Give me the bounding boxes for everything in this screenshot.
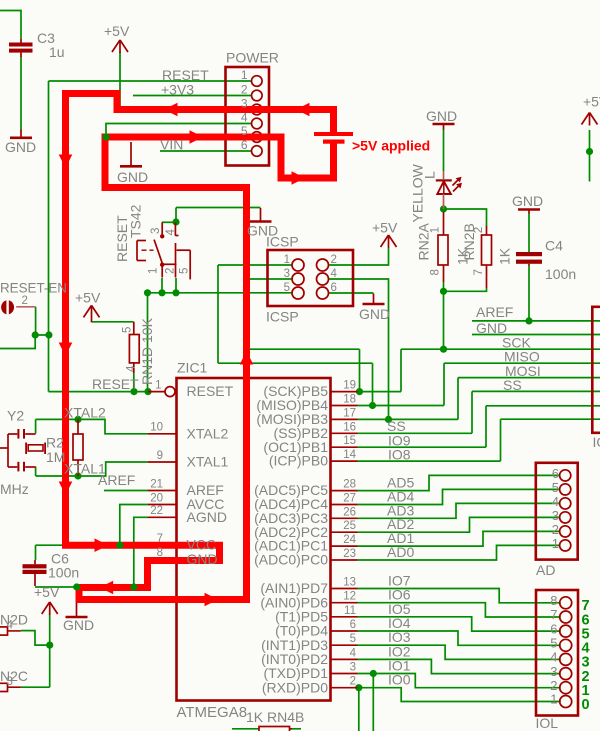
label RN1D value [122, 317, 155, 385]
svg-text:3: 3 [284, 268, 290, 280]
label >5V applied [352, 138, 430, 154]
label RN2B value [461, 223, 513, 275]
svg-text:6: 6 [350, 619, 356, 631]
wire IO7 net [358, 589, 561, 603]
ground LED inverted [433, 124, 455, 130]
svg-text:1: 1 [552, 536, 559, 551]
wire SCK middle row [247, 348, 360, 350]
label net IO9 [388, 433, 411, 449]
junction dot AVCC on highlight [116, 542, 123, 549]
label net SS [503, 377, 522, 393]
ground bottom-left [66, 590, 88, 617]
svg-text:0: 0 [582, 697, 590, 713]
wire RESET net left vertical [48, 81, 50, 392]
wire N2C link [21, 686, 50, 688]
label net VIN [160, 137, 183, 153]
svg-text:1K RN4B: 1K RN4B [246, 709, 304, 725]
svg-text:24: 24 [343, 534, 356, 546]
label net IO8 [388, 447, 411, 463]
wire RN2B bottom [444, 288, 487, 291]
label AD title [536, 562, 555, 578]
svg-text:+5V: +5V [34, 584, 60, 600]
svg-text:100n: 100n [48, 565, 79, 581]
wire switch to ICSP GND symbol [176, 207, 261, 209]
svg-text:+5V: +5V [372, 220, 398, 236]
svg-text:1M: 1M [46, 449, 65, 465]
svg-text:6: 6 [331, 282, 337, 294]
label net GND line [476, 320, 507, 336]
wire crystal rail top [35, 419, 37, 433]
wire IO4 net [358, 631, 561, 645]
svg-text:AREF: AREF [476, 304, 513, 320]
svg-text:9: 9 [157, 450, 163, 462]
wire IO2 net [358, 659, 561, 673]
label LED name [410, 163, 438, 222]
label ZIC1 [177, 360, 208, 376]
svg-text:RESET: RESET [92, 376, 139, 392]
svg-text:+3V3: +3V3 [161, 82, 194, 98]
svg-text:ICSP: ICSP [266, 309, 299, 325]
svg-text:17: 17 [343, 407, 356, 419]
svg-text:2: 2 [473, 227, 485, 233]
wire RESET-EN stub left [0, 335, 35, 349]
wire pin15 row [358, 446, 487, 448]
svg-text:22: 22 [150, 505, 163, 517]
wire IO1 net [358, 674, 561, 688]
wire C4 bottom to AREF [528, 265, 530, 321]
wire IO8 long line [501, 418, 600, 420]
wire SCK vertical under highlight [246, 279, 248, 349]
wire RXD drop [358, 688, 360, 731]
label net RESET row [92, 376, 139, 392]
svg-text:AD: AD [536, 562, 555, 578]
svg-text:POWER: POWER [226, 50, 279, 66]
label AD pin numbers [552, 466, 559, 551]
flow arrows [59, 103, 310, 607]
wire ICSP pin3 SCK left [247, 278, 293, 280]
resistor RN1D 10K [129, 322, 139, 373]
svg-text:2: 2 [552, 522, 559, 537]
svg-text:8: 8 [550, 593, 557, 608]
label IOL green digits [582, 598, 590, 713]
ground ICSP-left [250, 208, 272, 222]
svg-text:Y2: Y2 [7, 408, 24, 424]
label net AREF left [98, 472, 135, 488]
label IOL title [536, 715, 559, 731]
svg-text:GND: GND [359, 306, 390, 322]
svg-text:10: 10 [150, 422, 163, 434]
label net AREF line [476, 304, 513, 320]
label C6 value [48, 551, 79, 581]
label GND LED [426, 108, 457, 124]
label MHz [0, 481, 29, 497]
wire ICSP pin4 MOSI [329, 279, 389, 419]
label GND near POWER [117, 169, 148, 185]
jumper RESET-EN [1, 300, 36, 314]
battery plates [314, 132, 353, 144]
label GND C3 [5, 139, 36, 155]
svg-text:2: 2 [241, 83, 248, 97]
label R2 value [46, 435, 65, 466]
svg-text:6: 6 [550, 621, 557, 636]
label GND bottom-left [63, 617, 94, 633]
resistor RN2C (cut) [0, 683, 21, 691]
svg-text:23: 23 [343, 548, 356, 560]
svg-text:4: 4 [126, 365, 138, 372]
resistor R2 1M [73, 419, 83, 476]
label IC left pin numbers [150, 380, 163, 560]
label +5V top [104, 23, 130, 39]
svg-text:3: 3 [241, 97, 248, 111]
svg-text:1: 1 [284, 254, 290, 266]
label net XTAL1 [64, 461, 106, 477]
svg-text:GND: GND [512, 193, 543, 209]
wire pin8 hidden drop [147, 559, 149, 587]
wire VIN to POWER pin6 [160, 150, 252, 152]
wire IO9 riser [485, 406, 487, 447]
wire RESET row to IC pin1 [49, 391, 149, 393]
label ATMEGA8 [177, 704, 248, 721]
wire XTAL2 row [36, 419, 148, 433]
svg-text:N2C: N2C [0, 668, 28, 684]
label RN4B value [246, 709, 304, 725]
label IC right pin numbers [343, 380, 356, 688]
wire IO9 long line [486, 405, 600, 407]
wire AGND drop [134, 517, 148, 587]
ic right pin stubs [331, 392, 358, 688]
svg-text:4: 4 [552, 494, 559, 509]
svg-text:14: 14 [343, 449, 356, 461]
svg-text:5: 5 [241, 124, 248, 138]
svg-text:MHz: MHz [0, 481, 29, 497]
label IOL pin numbers [550, 593, 557, 707]
label RN2C pin [0, 668, 28, 688]
wire switch pin4 drop [175, 208, 177, 224]
label net XTAL2 [64, 405, 106, 421]
svg-text:3: 3 [552, 508, 559, 523]
svg-text:>5V applied: >5V applied [352, 138, 430, 154]
wire LED node to RN2B [444, 209, 487, 226]
svg-text:8: 8 [157, 547, 163, 559]
svg-text:SS: SS [503, 377, 522, 393]
svg-text:XTAL1: XTAL1 [187, 454, 229, 470]
svg-text:5: 5 [122, 327, 134, 333]
svg-text:ATMEGA8: ATMEGA8 [177, 704, 248, 721]
svg-text:1u: 1u [49, 44, 65, 60]
svg-text:12: 12 [343, 591, 356, 603]
wire +5V N2 vertical [49, 614, 51, 688]
wire MOSI riser [457, 378, 459, 420]
wire ICSP pin6 to GND [329, 292, 374, 294]
svg-text:20: 20 [150, 492, 163, 504]
wire C4 top [528, 213, 530, 252]
wire +3V3 to POWER pin2 [133, 95, 252, 97]
wire RESET row switch to ICSP pin5 [148, 292, 293, 294]
svg-text:2: 2 [331, 254, 337, 266]
connector ICSP box [268, 250, 354, 306]
ic ZIC1 box [177, 378, 331, 701]
label +5V bottom-left [34, 584, 60, 600]
svg-text:2: 2 [22, 295, 28, 307]
svg-text:TS42: TS42 [128, 204, 144, 238]
connector IOH box (cut) [592, 307, 600, 433]
wire SS long line [472, 390, 600, 392]
svg-text:RESET: RESET [187, 383, 234, 399]
svg-text:7: 7 [473, 269, 485, 275]
wire pin18 row [358, 405, 445, 407]
label RN2D pin [0, 612, 28, 632]
wire XTAL1 row [36, 462, 148, 476]
label C4 value [545, 238, 576, 283]
wire IO6 net [358, 603, 561, 617]
wire MISO riser [443, 363, 445, 405]
svg-text:3: 3 [350, 662, 356, 674]
svg-text:4: 4 [331, 268, 338, 280]
label net MOSI [505, 363, 541, 379]
ic left pin stubs [148, 434, 177, 560]
supply +5V bottom-left [42, 602, 58, 615]
wire AREF long line [472, 320, 600, 322]
wire GND long line [472, 334, 600, 336]
svg-text:1: 1 [148, 268, 160, 274]
wire AD2 net [358, 517, 560, 532]
wire GND row bottom [35, 586, 148, 588]
wire RESET-EN link [36, 307, 49, 335]
wire switch to RESET row vertical [147, 293, 149, 392]
svg-text:6: 6 [241, 138, 248, 152]
svg-text:VIN: VIN [160, 137, 183, 153]
led L yellow [436, 171, 462, 209]
label +5V ICSP [372, 220, 398, 236]
label RESET-EN [0, 281, 67, 308]
connector ICSP pads [292, 259, 329, 299]
svg-text:4: 4 [350, 647, 357, 659]
supply +5V ICSP [381, 235, 397, 248]
label IC right pin names [254, 383, 328, 695]
svg-text:C4: C4 [545, 238, 563, 254]
wire AREF left [104, 490, 148, 492]
wire AD4 net [358, 489, 560, 504]
wire AD0 net [358, 545, 560, 560]
wire N2D link [21, 631, 50, 646]
svg-text:5: 5 [550, 636, 557, 651]
svg-text:18: 18 [343, 394, 356, 406]
wire pin17 row [358, 418, 459, 420]
svg-text:2: 2 [350, 676, 356, 688]
label switch pins [148, 228, 191, 274]
label net MISO [504, 349, 540, 365]
switch S1 TS42 [137, 222, 190, 279]
svg-text:XTAL2: XTAL2 [187, 425, 229, 441]
label IC left pin names [187, 383, 234, 567]
svg-text:3: 3 [7, 676, 13, 688]
connector AD pads [560, 470, 571, 551]
svg-text:RN1D 10K: RN1D 10K [139, 317, 155, 385]
wire IO3 net [358, 645, 561, 659]
svg-text:IOL: IOL [536, 715, 559, 731]
wire AVCC drop [120, 505, 148, 546]
svg-text:5: 5 [552, 480, 559, 495]
wire pin19 row [358, 391, 402, 393]
ground near POWER [120, 142, 142, 166]
wire MISO drop to pin18 [372, 363, 374, 405]
wire RN4B right stub [290, 728, 302, 730]
svg-text:19: 19 [343, 380, 356, 392]
svg-text:IO0: IO0 [388, 672, 411, 688]
crystal Y2 cluster [0, 429, 46, 471]
connector IOL box [536, 590, 578, 716]
wire RN4B left stub [232, 728, 259, 730]
svg-text:16: 16 [343, 421, 356, 433]
label switch S1 name [114, 204, 144, 262]
label net SCK [502, 335, 531, 351]
svg-text:GND: GND [63, 617, 94, 633]
label net +3V3 [161, 82, 194, 98]
svg-text:+5V: +5V [75, 290, 101, 306]
wire pin14 row [358, 460, 501, 462]
svg-text:100n: 100n [545, 266, 576, 282]
supply +5V RN1D [84, 305, 100, 322]
svg-text:IO8: IO8 [388, 447, 411, 463]
svg-text:L: L [422, 171, 438, 179]
label GND ICSP-left [247, 223, 278, 239]
svg-text:IO: IO [593, 434, 600, 450]
wire RN1D to RESET row [133, 373, 135, 392]
svg-text:XTAL2: XTAL2 [64, 405, 106, 421]
svg-text:GND: GND [187, 551, 218, 567]
svg-text:3: 3 [150, 228, 162, 234]
label ICSP title [266, 234, 299, 325]
svg-text:+5V: +5V [583, 94, 600, 110]
capacitor C4 [516, 252, 542, 266]
wire ICSP pin1 MISO left [218, 264, 292, 266]
wire pin16 row [358, 432, 473, 434]
junction dot POWER pin4 GND [102, 133, 109, 140]
label Y2 name [7, 408, 24, 424]
label +5V right [583, 94, 600, 110]
svg-text:4: 4 [165, 229, 177, 236]
svg-text:(ADC0)PC0: (ADC0)PC0 [254, 552, 328, 568]
wire AD1 net [358, 531, 560, 546]
wire RESET net to POWER pin1 [49, 80, 252, 82]
svg-text:+5V: +5V [104, 23, 130, 39]
svg-text:1: 1 [155, 380, 161, 392]
svg-text:ZIC1: ZIC1 [177, 360, 208, 376]
svg-text:28: 28 [343, 479, 356, 491]
label net RESET [162, 67, 209, 83]
wire SCK riser [400, 349, 402, 391]
wire IO0 net [358, 688, 561, 702]
svg-text:(ICP)PB0: (ICP)PB0 [269, 453, 328, 469]
wire VCC row left [36, 544, 67, 546]
resistor RN2A [438, 212, 448, 282]
wire SCK drop to pin19 [359, 349, 361, 391]
svg-text:5: 5 [284, 282, 290, 294]
wire +5V right drop [589, 130, 591, 182]
svg-text:7: 7 [550, 607, 557, 622]
svg-text:1: 1 [429, 227, 441, 233]
wire +5V to RN1D [92, 321, 134, 323]
svg-text:11: 11 [344, 605, 356, 617]
label GND ICSP pin6 [359, 306, 390, 322]
svg-text:1: 1 [241, 68, 248, 82]
svg-text:25: 25 [343, 520, 356, 532]
ground C4 inverted [518, 210, 540, 214]
svg-text:1K: 1K [497, 247, 513, 265]
svg-text:2: 2 [165, 268, 177, 274]
wire MISO middle row [218, 362, 373, 364]
wire MISO vertical [217, 265, 219, 363]
wire POWER pin4 net [106, 124, 252, 137]
svg-text:7: 7 [157, 533, 163, 545]
svg-text:RESET-EN: RESET-EN [0, 281, 67, 296]
wire SS riser [471, 391, 473, 433]
label RN2A value [416, 222, 471, 275]
label C3 value [37, 30, 65, 60]
svg-text:8: 8 [429, 269, 441, 275]
label POWER title [226, 50, 279, 66]
svg-text:5: 5 [350, 633, 356, 645]
wire ICSP pin2 to +5V [329, 248, 389, 265]
svg-text:26: 26 [343, 506, 356, 518]
svg-text:ICSP: ICSP [266, 234, 299, 250]
highlight current loop [66, 94, 334, 600]
svg-text:GND: GND [5, 139, 36, 155]
svg-text:N2D: N2D [0, 612, 28, 628]
wire +5V top to POWER pin3 [119, 52, 121, 108]
connector POWER pins [251, 76, 262, 157]
svg-text:13: 13 [343, 577, 356, 589]
svg-text:4: 4 [241, 111, 248, 125]
label net SS local [387, 418, 406, 434]
svg-text:GND: GND [117, 169, 148, 185]
wire MISO long line [444, 362, 600, 364]
svg-text:2: 2 [550, 678, 557, 693]
capacitor C3 [9, 39, 33, 57]
svg-text:27: 27 [343, 493, 356, 505]
svg-text:AGND: AGND [187, 509, 227, 525]
connector AD box [536, 463, 578, 560]
resistor RN4B (cut) [259, 727, 292, 731]
ground ICSP pin6 [363, 294, 385, 305]
wire IO8 riser [500, 419, 502, 461]
capacitor C6 [23, 560, 47, 586]
svg-text:21: 21 [150, 478, 163, 490]
wire AD5 net [358, 475, 560, 490]
junction dot AGND row [130, 583, 137, 590]
junction dot C6 GND row [73, 583, 80, 590]
svg-text:15: 15 [343, 435, 356, 447]
wire crystal rail bottom [35, 467, 37, 477]
label +5V RN1D [75, 290, 101, 306]
svg-text:AREF: AREF [98, 472, 135, 488]
svg-text:1: 1 [550, 692, 557, 707]
connector IOL pads [560, 597, 572, 708]
wire AD3 net [358, 503, 560, 518]
label AD nets [387, 475, 414, 560]
wire C3 top net [0, 11, 21, 40]
supply +5V top [112, 40, 128, 53]
svg-text:6: 6 [552, 466, 559, 481]
label GND C4 [512, 193, 543, 209]
supply +5V right [582, 113, 598, 126]
wire MOSI long line [458, 377, 600, 379]
wire IO5 net [358, 617, 561, 631]
wire RN2 bottom to SCK line [443, 291, 445, 349]
label IO header title [593, 434, 600, 450]
wire SCK long line [401, 348, 600, 350]
resistor RN2B [482, 226, 492, 288]
